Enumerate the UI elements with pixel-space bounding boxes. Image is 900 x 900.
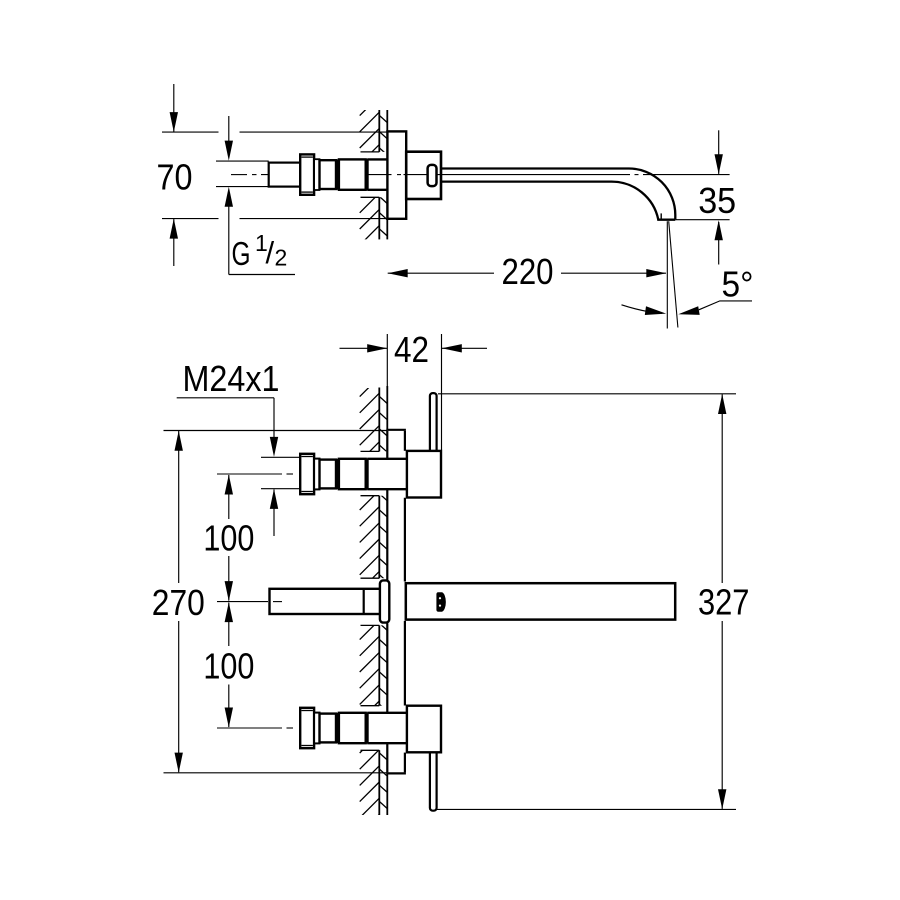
wall face lines with holes (bottom view): [361, 388, 388, 816]
label M24x1 with leader: [177, 358, 301, 536]
dimension 220: [388, 251, 667, 292]
svg-text:270: 270: [152, 582, 205, 623]
valve and spout centerlines (bottom view): [217, 474, 293, 728]
svg-text:5°: 5°: [722, 263, 754, 304]
svg-text:100: 100: [203, 646, 254, 687]
svg-text:M24x1: M24x1: [183, 358, 280, 399]
lower handle lever and escutcheon: [407, 706, 441, 811]
svg-text:220: 220: [502, 251, 554, 292]
dimension 327: [437, 394, 749, 810]
svg-text:/: /: [266, 235, 275, 270]
svg-text:70: 70: [157, 156, 193, 197]
upper valve M24x1 (bottom view): [300, 454, 406, 494]
wall section hatch (top view): [360, 96, 388, 278]
wall flange (top view): [387, 131, 406, 218]
angle dimension 5 degrees: [622, 263, 754, 315]
label G 1/2: [216, 116, 295, 275]
spout centerline (top view): [231, 174, 730, 176]
wall plate 42mm: [386, 430, 406, 774]
aerator slot on body (top view): [428, 165, 437, 186]
svg-text:42: 42: [394, 329, 429, 370]
dimension 270: [152, 431, 387, 773]
svg-text:100: 100: [203, 518, 254, 559]
valve inlet G1/2 (top view): [269, 154, 388, 194]
dimension 42: [340, 329, 488, 450]
svg-text:G: G: [232, 235, 251, 272]
concealed supply pipe and union collar: [270, 580, 390, 622]
mixer body block (top view): [406, 152, 441, 199]
lower valve M24x1 (bottom view): [300, 708, 406, 748]
spout (top view): [441, 168, 675, 219]
spout with GROHE logo (bottom view): [406, 583, 675, 619]
dimension 35: [676, 130, 737, 264]
dimension 70: [157, 84, 388, 266]
svg-text:327: 327: [698, 581, 750, 622]
wall face lines with pipe hole (top view): [361, 110, 388, 239]
upper handle lever and escutcheon: [407, 393, 441, 497]
svg-text:2: 2: [275, 245, 288, 271]
dimension 100 lower: [203, 602, 254, 727]
water stream lines (5 deg): [667, 221, 678, 328]
dimension 100 upper: [203, 475, 254, 602]
svg-text:35: 35: [698, 180, 736, 221]
wall section hatch (bottom view): [360, 377, 388, 850]
